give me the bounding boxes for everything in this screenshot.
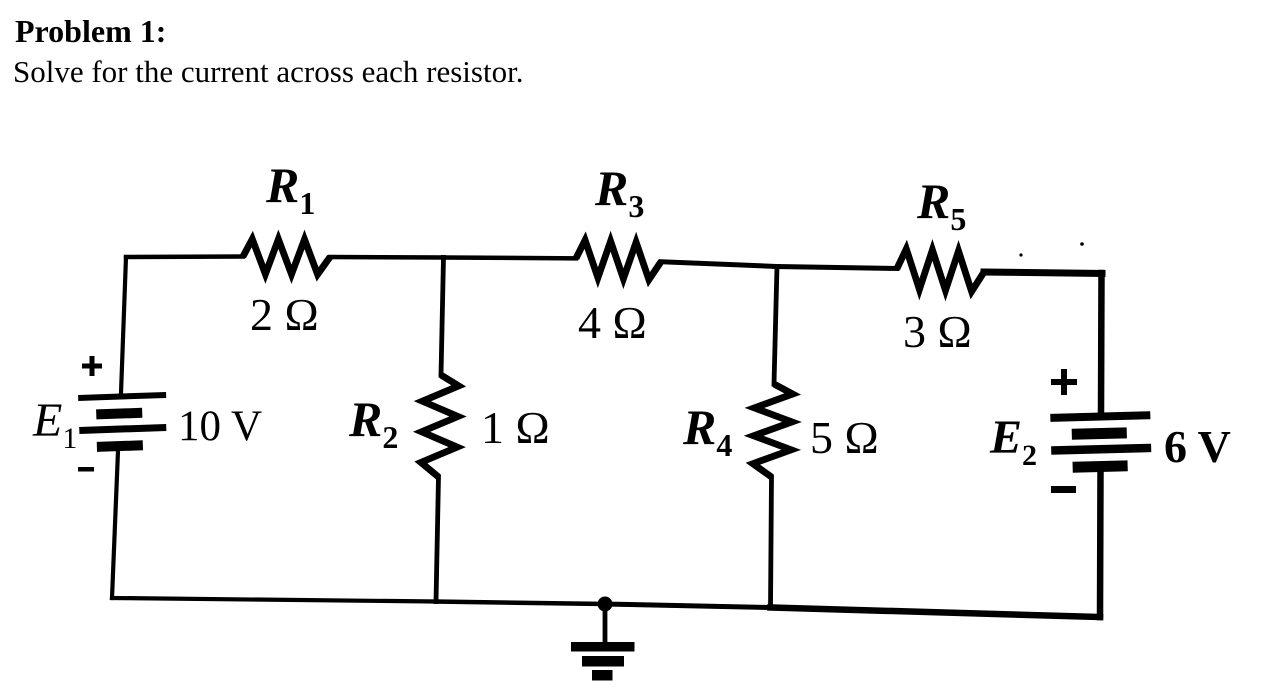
wire top-left (node A to R1) [126, 254, 243, 259]
wire bottom middle (R4 bottom to ground node) [605, 604, 771, 608]
svg-text:2 Ω: 2 Ω [250, 289, 319, 340]
wire R2 down to bottom wire [436, 477, 439, 602]
svg-text:3 Ω: 3 Ω [903, 306, 972, 357]
svg-text:E1: E1 [32, 394, 77, 455]
wire node B down to R2 [441, 258, 444, 376]
wire right vertical to E2 + terminal [1098, 273, 1105, 414]
svg-text:1 Ω: 1 Ω [481, 402, 550, 453]
wire node C down to R4 [774, 267, 777, 385]
wire R5 to top-right corner [984, 272, 1102, 274]
polarity - of E2 [1051, 486, 1076, 493]
svg-text:R3: R3 [594, 160, 644, 224]
polarity + of E1 [82, 356, 102, 376]
scan speck 1 [1019, 253, 1022, 256]
wire bottom-right (corner to R4 bottom) [771, 608, 1101, 618]
battery E1 [78, 392, 168, 453]
ground [571, 604, 635, 681]
battery E2 [1050, 411, 1152, 473]
svg-text:R5: R5 [916, 173, 966, 237]
svg-text:Problem 1:: Problem 1: [15, 13, 166, 49]
wire node C to R5 [777, 267, 897, 269]
svg-text:10 V: 10 V [178, 403, 262, 450]
junction dot (ground node) [598, 597, 613, 612]
wire E2 - terminal down to bottom-right corner [1097, 472, 1104, 617]
svg-text:Solve for the current across e: Solve for the current across each resist… [13, 54, 523, 89]
svg-text:E2: E2 [989, 411, 1037, 472]
wire node B to R3 [444, 255, 577, 260]
wire left vertical bottom (corner up to E1 - terminal) [112, 451, 118, 598]
wire R3 to node C (top of R4) [661, 262, 777, 267]
wire bottom-left (R2 bottom to corner) [112, 598, 436, 602]
svg-text:R4: R4 [682, 399, 732, 463]
wire R1 to node B (top of R2) [330, 255, 444, 260]
svg-text:R1: R1 [265, 157, 315, 221]
wire ground node to R2 bottom [436, 602, 605, 605]
svg-text:4 Ω: 4 Ω [578, 297, 647, 348]
wire R4 down to bottom wire [771, 477, 772, 608]
polarity - of E1 [78, 467, 94, 472]
scan speck 2 [1080, 242, 1084, 246]
resistor R2 [421, 375, 459, 477]
resistor R3 [576, 240, 661, 280]
resistor R5 [897, 249, 984, 292]
svg-text:R2: R2 [348, 391, 398, 455]
wire E1 + terminal up to top-left corner [121, 257, 126, 393]
svg-text:6 V: 6 V [1164, 421, 1231, 472]
resistor R1 [243, 239, 330, 274]
svg-text:5 Ω: 5 Ω [810, 412, 879, 463]
polarity + of E2 [1051, 369, 1077, 395]
resistor R4 [753, 384, 793, 477]
